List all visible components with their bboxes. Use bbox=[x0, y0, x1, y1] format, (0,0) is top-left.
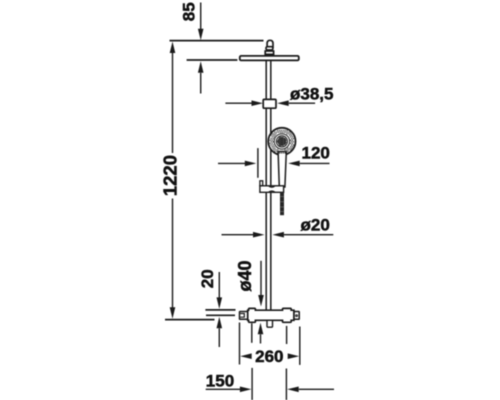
dim 150 right extension upper bbox=[286, 326, 288, 344]
dim 1220 down arrow bbox=[170, 307, 176, 319]
valve left handle bbox=[240, 312, 248, 320]
shower head knob collar bbox=[266, 47, 273, 50]
dim 85 upper line bbox=[200, 3, 202, 30]
dim 120 left extension line bbox=[257, 148, 259, 178]
dim 20 upper line (valve top level) bbox=[205, 309, 235, 311]
dim 120 left arrowhead bbox=[245, 161, 256, 167]
dim 150 right arrow line bbox=[299, 388, 334, 390]
dim 20 down arrowhead bbox=[217, 297, 223, 309]
slider bracket waist bbox=[268, 186, 275, 193]
valve left handle grip detail bbox=[240, 314, 244, 318]
svg-text:120: 120 bbox=[302, 144, 330, 163]
dim o38.5 right arrow line bbox=[289, 102, 315, 104]
dim o38.5 right arrowhead bbox=[277, 100, 289, 106]
svg-text:ø38,5: ø38,5 bbox=[290, 85, 333, 104]
collar fitting o38.5 bbox=[263, 99, 276, 108]
svg-text:150: 150 bbox=[206, 372, 234, 391]
dim 20 up arrow tail bbox=[218, 328, 220, 347]
svg-text:ø20: ø20 bbox=[301, 216, 330, 235]
dim 85 down arrow bbox=[198, 29, 204, 41]
dim o40 down arrow line bbox=[260, 261, 262, 297]
dim o40 up arrowhead bbox=[258, 323, 264, 335]
shower hose bbox=[280, 192, 284, 215]
dim 1220 line upper bbox=[172, 49, 174, 153]
dim o20 left arrow line bbox=[222, 234, 254, 236]
dim o38.5 left arrow line bbox=[225, 102, 252, 104]
dim 150 left extension lower bbox=[251, 368, 253, 400]
valve body with union nut bumps bbox=[248, 308, 294, 322]
hand shower center ring bbox=[276, 136, 287, 147]
svg-text:85: 85 bbox=[180, 2, 199, 21]
dim o40 up arrow tail bbox=[260, 334, 262, 343]
dim o40 down arrowhead bbox=[258, 295, 264, 307]
dim o20 right arrow line bbox=[284, 234, 333, 236]
dim 150 right arrowhead bbox=[287, 387, 299, 393]
slider bracket knob bbox=[260, 181, 263, 186]
svg-text:20: 20 bbox=[198, 269, 217, 288]
dim 20 down arrow line bbox=[218, 272, 220, 298]
shower head knob base bottom band bbox=[265, 54, 273, 56]
hand shower spray texture bbox=[270, 130, 294, 154]
dim 85 up arrow bbox=[198, 61, 204, 73]
svg-text:ø40: ø40 bbox=[235, 260, 255, 291]
slider bracket bbox=[260, 186, 284, 193]
dim o38.5 left arrowhead bbox=[252, 100, 264, 106]
shower head plate bbox=[240, 56, 299, 61]
dim o20 left arrowhead bbox=[253, 232, 265, 238]
dim 1220 up arrow bbox=[170, 42, 176, 54]
dim 260 right arrowhead bbox=[288, 353, 300, 359]
valve hose connector bbox=[267, 320, 273, 327]
dim 85 lower tail bbox=[200, 73, 202, 94]
svg-text:260: 260 bbox=[255, 347, 283, 366]
valve right handle dot bbox=[296, 315, 298, 317]
dim 120 right arrowhead bbox=[288, 161, 300, 167]
dim 1220 line lower bbox=[172, 199, 174, 311]
dim 260 left extension line bbox=[239, 323, 241, 365]
dim 260 left arrowhead bbox=[240, 353, 252, 359]
shower head knob ball bbox=[267, 40, 273, 47]
dim 150 right extension lower bbox=[285, 369, 287, 400]
dim 120 right arrow line bbox=[300, 162, 330, 164]
dim 20 lower line (valve center level) bbox=[206, 314, 235, 316]
bottom reference line (valve bottom level) bbox=[165, 319, 215, 321]
hand shower handle bbox=[278, 152, 286, 188]
dim 120 left arrow line bbox=[218, 162, 245, 164]
shower head knob base bbox=[265, 51, 273, 56]
dim o20 right arrowhead bbox=[272, 232, 284, 238]
shower pipe bbox=[266, 60, 271, 311]
dim 150 left extension upper bbox=[251, 323, 253, 343]
top reference line bbox=[170, 40, 264, 42]
hand shower inner ring bbox=[274, 134, 289, 149]
dim 20 up arrowhead bbox=[217, 317, 223, 329]
hand shower head circle bbox=[268, 128, 295, 155]
plate level line bbox=[187, 59, 238, 61]
dim 260 right extension line bbox=[299, 327, 301, 365]
dim 150 left arrow line bbox=[206, 388, 240, 390]
dim 150 left arrowhead bbox=[240, 387, 252, 393]
svg-text:1220: 1220 bbox=[160, 155, 181, 196]
valve right handle bbox=[294, 312, 299, 320]
